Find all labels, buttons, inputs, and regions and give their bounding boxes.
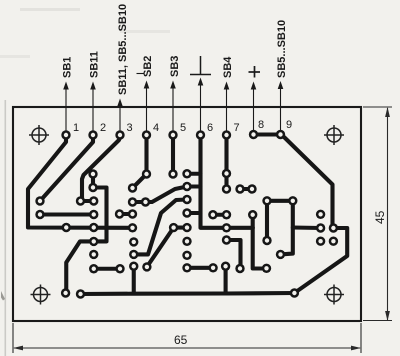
pad (292.8,200.8) [288,196,297,205]
pad (320.6,228) [316,223,325,232]
pad (266.2,267) [262,264,271,273]
svg-text:SB5...SB10: SB5...SB10 [276,20,288,78]
wire C4 to trunk6 [187,211,201,215]
pad 6 [196,130,205,139]
pad (333.4,241.2) [329,237,338,246]
svg-text:4: 4 [153,122,159,134]
svg-text:45: 45 [373,210,387,224]
wire pad(40,214.5) to A4 [40,212,94,216]
wire pad5 down [171,137,175,174]
arrow SB1 [65,86,67,131]
pad 4b [142,169,151,178]
arrowheads pointing up [63,82,69,90]
pad (212.9,214.75) [208,210,217,219]
wire D1 diagonal C3 to B6 [134,200,187,255]
pad B1 [128,183,137,192]
dim arrow up [385,107,390,117]
pad (267,200.8) [262,196,271,205]
pad (252,189) [247,184,256,193]
dim line 65 [14,347,360,349]
svg-text:SB11: SB11 [89,51,101,78]
scan artifact left edge [5,100,7,356]
wire C2 to trunk6 [187,184,201,188]
dim arrow down [385,311,390,321]
wire pad2 to pad(40,201) [40,137,93,201]
wire D-A3 [81,199,94,203]
wire C1 to trunk6 [187,172,201,176]
arrow SB5..SB10 [280,86,282,130]
pad M1 [222,169,231,178]
pad A3 [89,196,98,205]
pad 4c [141,197,150,206]
extension line bottom-left [12,323,14,353]
pad B3 [128,209,137,218]
board outline [13,107,361,321]
pad A4 [89,210,98,219]
wire pad3 to pad(81,201) [82,137,120,201]
pad (173.6,227.6) [169,223,178,232]
pad C1 [182,169,191,178]
pad (80.5,294) [76,289,85,298]
pad F [62,223,71,232]
pad C3 [182,195,191,204]
pad B5 [129,237,138,246]
svg-text:SB1: SB1 [62,57,74,78]
pad M2 [222,184,231,193]
pad (40,201) [35,196,44,205]
pad (119.5,214) [115,209,124,218]
pad C4 [182,208,191,217]
pad (120,268.75) [115,264,124,273]
pad M6 [221,262,230,271]
pad M4 [222,223,231,232]
svg-text:2: 2 [100,122,106,134]
arrow plus [253,86,255,130]
pad C7 [182,251,191,260]
wire trunk down-branch [253,228,267,269]
mounting hole bottom-right [324,285,344,305]
wire pair A8 [94,267,120,271]
pad 1 [61,130,70,139]
wire pair (119.5,214)-(132.5,214) [120,212,133,216]
wire trunk pad6 [201,137,253,228]
pad 3 [115,130,124,139]
pad (320.6,214.3) [316,210,325,219]
mounting hole top-right [324,125,344,145]
wire A2 to trunk and trunk down to bottom-left pad [66,188,107,294]
svg-text:8: 8 [258,119,264,131]
arrow SB3 [172,85,174,131]
pad 4 [142,130,151,139]
pad A5 [89,223,98,232]
svg-text:SB2: SB2 [142,56,154,77]
svg-text:3: 3 [127,122,133,134]
svg-text:5: 5 [180,122,186,134]
pad (320.6,241.2) [316,237,325,246]
pad 5b [168,169,177,178]
wire long horizontal bottom [81,293,295,294]
pad (267,240.5) [262,236,271,245]
wire pad8-pad9 [254,132,281,136]
pad A8 [89,264,98,273]
wire M6 down [224,266,228,293]
pad 9 [276,130,285,139]
pad (213.1,267.8) [208,263,217,272]
pad D [76,196,85,205]
dim arrow left [13,346,23,351]
pad A2 [88,183,97,192]
leader tick SB2 [137,73,145,75]
pad 5 [168,130,177,139]
pad M5 [222,235,231,244]
wire vertical 292.8 with branch [281,201,293,255]
extension line right-bottom [363,320,392,322]
arrow SB2 [146,85,148,131]
pad B4 [128,223,137,232]
wire S-trace C2 to B2 [133,187,188,203]
pad A7 [89,250,98,259]
arrow SB4 [226,86,228,131]
pad 7 [222,130,231,139]
wire pad1 to bottom-left net [28,137,133,228]
wire pad4 down [144,137,148,174]
wire trunk up-branch [251,215,255,228]
plus symbol [249,66,261,78]
pad 8 [249,130,258,139]
arrow SB11,SB5..SB10 [119,103,121,131]
pad (333.4,228) [329,223,338,232]
ground symbol [190,56,211,75]
wire B7 down [132,266,136,293]
pad C5 [182,223,191,232]
pad (252.7,214.75) [248,210,257,219]
svg-text:6: 6 [207,122,213,134]
svg-text:65: 65 [174,333,188,347]
wire M5 elbow [227,240,241,269]
pad M3 [222,210,231,219]
wire (267,200.8) down [265,201,269,241]
pad (280.5,254.4) [276,250,285,259]
wire pair (267,200.8)-(292.8,200.8) [267,199,293,203]
extension line right-top [363,106,392,108]
svg-text:SB11, SB5...SB10: SB11, SB5...SB10 [117,4,129,95]
wire pair (240,189)-(252,189) [240,187,252,191]
svg-text:1: 1 [73,122,79,134]
dim arrow right [351,346,361,351]
wire pad4b diag to B1 [133,174,147,188]
mounting hole top-left [29,125,49,145]
arrow SB11 [92,86,94,131]
wire T9 pad9 route [281,135,348,294]
wire branch right to 2x2 pad [293,225,321,230]
pad (40,214.5) [35,210,44,219]
extension line bottom-right [360,323,362,353]
pad B6 [129,250,138,259]
pad (240,189) [235,184,244,193]
wire A1-A2 [91,174,95,188]
pad (294.4,293) [290,288,299,297]
pad diag bottom [142,262,151,271]
pad (65.6,293) [61,288,70,297]
arrow gnd [200,82,202,131]
pad A1 [88,169,97,178]
wire pair M3 [213,213,227,217]
mounting hole bottom-left [31,285,51,305]
dim line 45 [387,108,389,320]
pad (240,268.5) [235,264,244,273]
pin numbers [73,119,292,134]
wire C8 pair [187,266,213,270]
svg-text:9: 9 [286,119,292,131]
pad B2 [128,197,137,206]
wire pad7 chain [224,137,228,189]
pad A6 [89,237,98,246]
svg-text:SB3: SB3 [169,56,181,77]
pad 2 [88,130,97,139]
pad C8 [182,263,191,272]
pad C2 [182,182,191,191]
wire D2 diagonal [147,228,187,267]
svg-text:SB4: SB4 [222,56,234,78]
pad C6 [182,237,191,246]
svg-text:7: 7 [234,122,240,134]
pad B7 [129,262,138,271]
